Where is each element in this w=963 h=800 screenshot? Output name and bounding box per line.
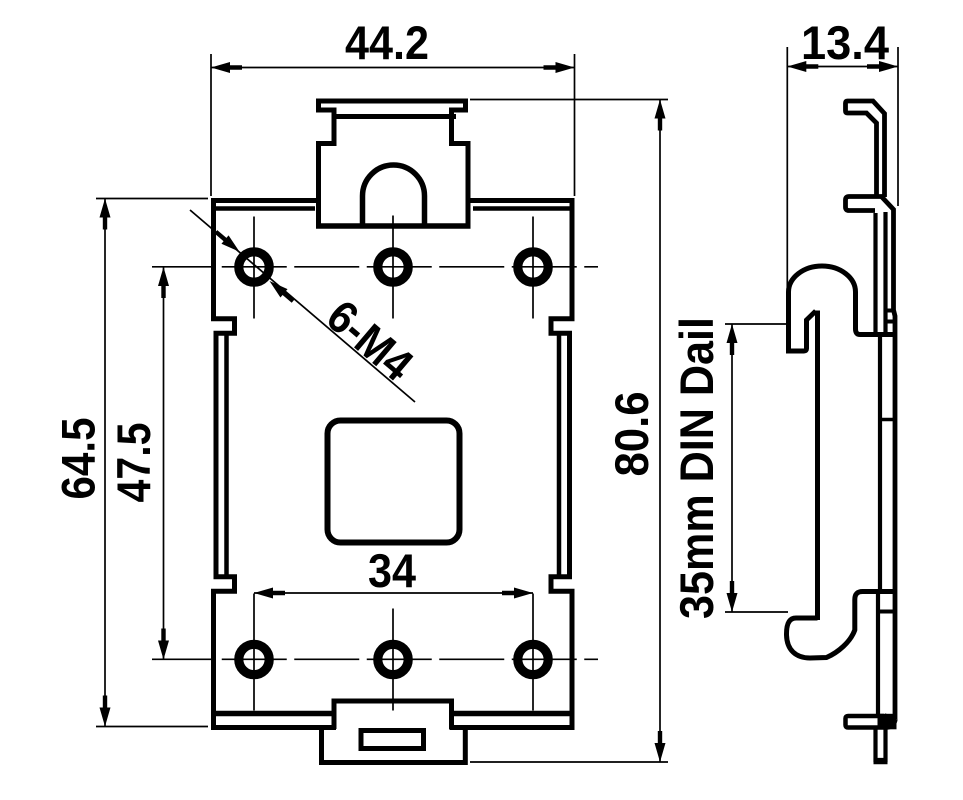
side boss foot bottom [786,311,816,351]
plate right mid inner line [557,336,562,576]
side tongue [876,728,886,761]
svg-text:34: 34 [368,544,416,597]
dim 44.2 arrow left [211,62,242,73]
hole A1 [239,252,269,282]
svg-text:44.2: 44.2 [345,16,429,69]
dim 64.5 line [104,199,106,727]
side slider edge mid [878,334,882,591]
centerline hole B2 vertical [392,609,394,711]
dim 44.2 line [211,67,575,69]
side plate middle line lower [883,212,887,336]
centerline top hole row [152,266,598,268]
side detail tick pair [884,309,895,313]
bottom clip upper box [334,701,452,729]
plate bottom edge left [213,711,335,717]
dim 34 arrow left [254,588,285,599]
bottom clip lower box [322,726,466,763]
side detail tick pair b [884,320,895,324]
svg-text:64.5: 64.5 [52,418,105,500]
side middle hook [846,197,885,211]
top clip bar bottom edge [332,114,457,119]
side foot chamfer fill [878,714,897,730]
plate top inner line right [473,206,575,211]
arch opening [363,165,425,228]
dim 34 arrow right [502,588,533,599]
dim 47.5 arrow bottom [158,629,169,660]
centerline hole A1 vertical [253,217,255,319]
dim 13.4 line [787,66,898,68]
side J hook [787,592,896,659]
dim 13.4 extension lines [786,47,788,291]
dim 35mm arrow top [727,324,738,355]
plate left mid inner line [224,336,229,576]
side middle hook chamfer edge [881,196,896,720]
hole A2 [378,252,408,282]
side wall [815,311,820,621]
centerline hole B3 vertical [532,594,534,711]
dim 34 line [254,592,533,594]
center square opening [328,421,460,543]
centerline bottom hole row [152,658,598,660]
svg-text:13.4: 13.4 [801,16,889,69]
centerline hole A2 vertical [392,216,394,319]
svg-text:80.6: 80.6 [605,392,658,477]
side plate inner line lower [873,213,877,333]
leader arrowhead lower [266,277,297,305]
dim 13.4 arrow left [787,61,818,72]
side top hook [846,101,885,197]
centerline hole B1 vertical [253,594,255,711]
dim 80.6 line [659,100,661,763]
side tongue bottom cap [874,760,888,765]
hole B2 [378,644,408,674]
dim 44.2 arrow right [544,62,575,73]
side boss dome [789,266,896,353]
plate outline left half [214,201,337,728]
dim 35mm extension lines [725,323,786,325]
dim 35mm arrow bottom [727,581,738,612]
dim 44.2 extension lines [210,54,212,196]
top clip outline [319,101,469,226]
leader arrowhead upper [212,228,243,256]
plate outline right half [450,201,573,728]
side slider edge low [876,593,880,716]
plate top inner line left [211,206,315,211]
side detail tick low [880,610,895,614]
dim 64.5 arrow top [100,199,111,230]
dim 64.5 arrow bottom [100,696,111,727]
dim 64.5 extension lines [96,198,208,200]
dim 13.4 arrow right [867,61,898,72]
dim 80.6 arrow bottom [655,731,666,762]
side foot bar [846,716,896,728]
hole A3 [518,252,548,282]
dim 47.5 line [163,267,165,660]
hole B1 [239,644,269,674]
side detail tick mid [880,418,895,422]
top clip bottom edge thick [316,223,471,229]
dim 80.6 extension lines [470,99,668,101]
centerline hole A3 vertical [532,217,534,319]
svg-text:35mm DIN Dail: 35mm DIN Dail [670,317,723,619]
dim 80.6 arrow top [655,100,666,131]
plate bottom edge right [452,711,575,717]
dim 47.5 arrow top [158,267,169,298]
bottom clip slot [361,731,424,749]
leader line 6-M4 [190,210,415,402]
hole B3 [518,644,548,674]
svg-text:47.5: 47.5 [107,423,160,503]
dim 35mm line [731,324,733,612]
